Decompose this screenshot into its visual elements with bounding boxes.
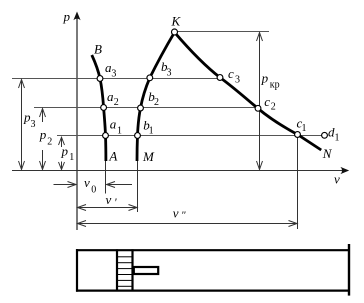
svg-text:1: 1 bbox=[117, 126, 122, 137]
vertical line through c1 bbox=[297, 135, 299, 229]
svg-text:2: 2 bbox=[114, 97, 119, 108]
point K critical bbox=[172, 29, 178, 35]
svg-text:v: v bbox=[173, 206, 179, 221]
p2 dimension arrow bbox=[40, 109, 46, 170]
svg-text:B: B bbox=[94, 42, 102, 57]
saturated liquid curve B-a3-a2-a1-A bbox=[92, 55, 106, 161]
vertical line through A bbox=[105, 161, 107, 194]
v0 dimension left arrow bbox=[54, 182, 77, 188]
svg-text:c: c bbox=[228, 66, 234, 81]
v axis bbox=[12, 170, 346, 172]
p3 dimension arrow bbox=[19, 80, 25, 170]
svg-text:v: v bbox=[334, 172, 340, 187]
svg-text:3: 3 bbox=[167, 68, 172, 79]
vertical line through M bbox=[137, 161, 139, 212]
svg-text:2: 2 bbox=[271, 102, 276, 113]
point c3 bbox=[217, 75, 223, 81]
svg-text:3: 3 bbox=[111, 68, 116, 79]
svg-text:p: p bbox=[261, 71, 269, 86]
point a1 bbox=[103, 133, 109, 139]
svg-text:1: 1 bbox=[69, 152, 74, 163]
cylinder left wall bbox=[76, 249, 78, 292]
v' dimension arrow bbox=[78, 205, 138, 211]
point a3 bbox=[97, 76, 103, 82]
svg-text:1: 1 bbox=[302, 123, 307, 134]
svg-text:a: a bbox=[110, 117, 117, 132]
point b1 bbox=[135, 133, 141, 139]
svg-text:c: c bbox=[264, 94, 270, 109]
svg-text:p: p bbox=[61, 144, 69, 159]
piston bbox=[117, 249, 133, 291]
svg-text:N: N bbox=[322, 146, 333, 161]
svg-text:1: 1 bbox=[149, 126, 154, 137]
v0 dimension right arrow bbox=[107, 182, 133, 188]
point c2 bbox=[255, 105, 261, 111]
K level line bbox=[175, 31, 270, 33]
cylinder bottom wall bbox=[76, 290, 350, 292]
p2 level line bbox=[34, 107, 258, 109]
saturated vapor curve M-b1-b2-b3-K bbox=[137, 32, 175, 161]
svg-text:": " bbox=[181, 209, 186, 221]
v'' dimension arrow bbox=[78, 221, 298, 227]
point d1 bbox=[322, 132, 328, 138]
piston rod bbox=[134, 267, 158, 274]
p_kr dimension arrow bbox=[257, 33, 263, 170]
svg-text:2: 2 bbox=[47, 137, 52, 148]
p axis bbox=[76, 16, 78, 230]
svg-text:0: 0 bbox=[91, 185, 96, 196]
supercritical/vapor curve K-c3-c2-c1-N bbox=[175, 32, 322, 150]
p1 level line bbox=[57, 135, 325, 137]
p1 dimension arrow bbox=[59, 137, 65, 169]
svg-text:кр: кр bbox=[270, 80, 280, 91]
point c1 bbox=[295, 132, 301, 138]
point a2 bbox=[101, 105, 107, 111]
svg-text:K: K bbox=[171, 14, 182, 29]
cylinder right wall bbox=[348, 244, 350, 296]
point b2 bbox=[138, 105, 144, 111]
svg-text:3: 3 bbox=[235, 74, 240, 85]
p3 level line bbox=[12, 78, 220, 80]
cylinder top wall bbox=[76, 249, 350, 251]
svg-text:p: p bbox=[39, 127, 47, 142]
svg-text:2: 2 bbox=[154, 97, 159, 108]
svg-text:p: p bbox=[63, 9, 71, 24]
svg-text:v: v bbox=[106, 192, 112, 207]
svg-text:v: v bbox=[84, 175, 90, 190]
svg-text:M: M bbox=[142, 149, 155, 164]
svg-text:3: 3 bbox=[31, 119, 36, 130]
point b3 bbox=[147, 75, 153, 81]
svg-text:A: A bbox=[108, 149, 117, 164]
svg-text:1: 1 bbox=[335, 132, 340, 143]
svg-text:': ' bbox=[114, 195, 117, 209]
